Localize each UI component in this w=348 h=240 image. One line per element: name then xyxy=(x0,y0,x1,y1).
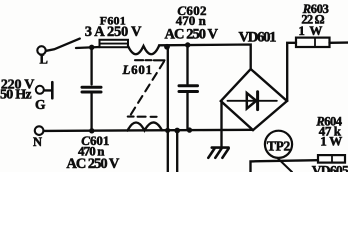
svg-text:1 W: 1 W xyxy=(298,23,322,38)
svg-text:G: G xyxy=(35,97,46,112)
svg-text:AC 250 V: AC 250 V xyxy=(66,156,120,172)
svg-text:N: N xyxy=(33,135,42,149)
svg-text:L: L xyxy=(40,52,48,66)
svg-text:AC 250 V: AC 250 V xyxy=(165,27,219,43)
svg-text:TP2: TP2 xyxy=(267,138,291,153)
svg-text:VD601: VD601 xyxy=(239,29,277,45)
svg-text:1 W: 1 W xyxy=(320,133,342,148)
svg-text:VD605: VD605 xyxy=(312,163,348,172)
svg-text:L601: L601 xyxy=(122,62,153,77)
svg-text:50 Hz: 50 Hz xyxy=(0,88,32,103)
svg-text:3 A 250 V: 3 A 250 V xyxy=(85,24,142,40)
